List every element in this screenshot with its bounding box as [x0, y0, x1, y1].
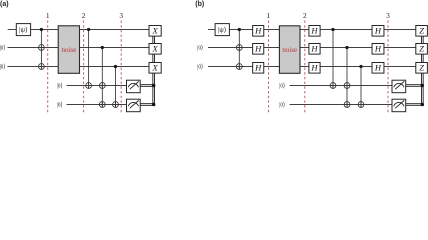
gate X q3 (a)	[149, 63, 161, 74]
svg-text:|0⟩: |0⟩	[57, 102, 63, 109]
svg-text:2: 2	[303, 11, 307, 20]
svg-text:H: H	[374, 25, 382, 35]
wire ancilla a1 (a)	[67, 85, 127, 87]
measurement meter a1 (a)	[127, 80, 141, 93]
classical double wire from meter a1 (a)	[140, 84, 154, 86]
control q2 syndrome (b)	[345, 46, 348, 49]
dashed barrier 3 (a)	[120, 21, 122, 114]
wire ancilla a1 (b)	[290, 85, 392, 87]
gate H q3 col2 (b)	[309, 63, 320, 74]
gate H q2 col2 (b)	[309, 44, 320, 55]
svg-text:H: H	[310, 43, 318, 53]
wire CNOT vertical q1->a1 (a)	[88, 30, 90, 89]
svg-text:H: H	[310, 62, 318, 72]
control q1 syndrome (b)	[331, 28, 334, 31]
svg-text:Z: Z	[419, 43, 424, 53]
svg-text:H: H	[310, 25, 318, 35]
CNOT target q3 (a)	[39, 64, 45, 70]
gate X q2 (a)	[149, 44, 161, 55]
CNOT target a2 from q2 (b)	[344, 102, 350, 108]
CNOT target q2 (b)	[236, 45, 242, 51]
classical corner dot a2 (b)	[421, 103, 424, 106]
measurement meter a1 (b)	[392, 80, 406, 93]
dashed barrier 2 (a)	[83, 21, 85, 114]
wire ancilla a2 (b)	[290, 104, 392, 106]
svg-text:H: H	[254, 43, 262, 53]
control q1 syndrome (a)	[87, 28, 90, 31]
svg-text:(a): (a)	[0, 1, 9, 8]
classical junction dot a1 (a)	[152, 84, 155, 87]
CNOT target a1 from q1 (a)	[86, 83, 92, 89]
CNOT target a2 from q2 (a)	[99, 102, 105, 108]
svg-text:Z: Z	[419, 25, 424, 35]
control q1 encode (b)	[238, 28, 241, 31]
wire q3 (b)	[208, 66, 416, 68]
classical double wire from meter a1 (b)	[406, 84, 423, 86]
measurement meter a2 (b)	[392, 99, 406, 112]
CNOT target a1 from q2 (b)	[344, 83, 350, 89]
control q2 syndrome (a)	[101, 46, 104, 49]
svg-text:H: H	[374, 62, 382, 72]
svg-text:|0⟩: |0⟩	[197, 45, 203, 52]
control q1 encode (a)	[40, 28, 43, 31]
svg-text:1: 1	[267, 11, 271, 20]
CNOT target a1 from q2 (a)	[99, 83, 105, 89]
gate H q3 col1 (b)	[253, 63, 264, 74]
svg-text:|0⟩: |0⟩	[57, 83, 63, 90]
classical corner dot a2 (a)	[152, 103, 155, 106]
gate H q1 col2 (b)	[309, 26, 320, 37]
CNOT target q2 (a)	[39, 45, 45, 51]
svg-text:|ψ⟩: |ψ⟩	[218, 26, 227, 34]
classical double wire vertical (b)	[420, 36, 422, 106]
svg-text:|0⟩: |0⟩	[0, 64, 5, 71]
svg-text:H: H	[374, 43, 382, 53]
wire ancilla a2 (a)	[67, 104, 127, 106]
gate H q3 col3 (b)	[372, 63, 384, 74]
wire CNOT vertical encode (b)	[238, 30, 240, 70]
svg-text:(b): (b)	[195, 1, 204, 8]
wire CNOT vertical q1->a1 (b)	[332, 30, 334, 89]
wire CNOT vertical encode (a)	[40, 30, 42, 70]
classical double wire from meter a2 (b)	[406, 103, 423, 105]
control q3 syndrome (a)	[114, 65, 117, 68]
CNOT target q3 (b)	[236, 64, 242, 70]
svg-text:noise: noise	[282, 46, 297, 54]
svg-text:3: 3	[386, 11, 390, 20]
gate Z q2 (b)	[416, 44, 428, 55]
wire q1 (a)	[8, 29, 17, 31]
svg-text:3: 3	[119, 11, 123, 20]
control q3 syndrome (b)	[359, 65, 362, 68]
state-prep box |psi> (b)	[215, 24, 229, 36]
dashed barrier 1 (b)	[268, 21, 270, 114]
CNOT target a2 from q3 (a)	[113, 102, 119, 108]
wire CNOT vertical q2->a1,a2 (a)	[101, 48, 103, 108]
noise box (a)	[58, 26, 79, 74]
gate H q2 col1 (b)	[253, 44, 264, 55]
noise box (b)	[279, 26, 300, 74]
svg-text:H: H	[254, 25, 262, 35]
gate Z q3 (b)	[416, 63, 428, 74]
gate H q1 col3 (b)	[372, 26, 384, 37]
wire q2 (b)	[208, 47, 416, 49]
measurement meter a2 (a)	[127, 99, 141, 112]
wire q2 (a)	[8, 47, 150, 49]
classical junction dot a1 (b)	[421, 84, 424, 87]
svg-text:|0⟩: |0⟩	[0, 45, 5, 52]
gate H q2 col3 (b)	[372, 44, 384, 55]
dashed barrier 1 (a)	[47, 21, 49, 114]
wire CNOT vertical q3->a2 (b)	[360, 67, 362, 108]
wire CNOT vertical q3->a2 (a)	[115, 67, 117, 108]
dashed barrier 2 (b)	[304, 21, 306, 114]
svg-text:noise: noise	[61, 46, 76, 54]
classical double wire from meter a2 (a)	[140, 103, 154, 105]
svg-text:|ψ⟩: |ψ⟩	[19, 26, 28, 34]
svg-text:|0⟩: |0⟩	[279, 102, 285, 109]
wire CNOT vertical q2->a1,a2 (b)	[346, 48, 348, 108]
svg-text:Z: Z	[419, 62, 424, 72]
state-prep box |psi> (a)	[16, 24, 30, 36]
classical double wire vertical (a)	[152, 36, 154, 106]
svg-text:X: X	[151, 62, 158, 72]
svg-text:1: 1	[46, 11, 50, 20]
CNOT target a2 from q3 (b)	[358, 102, 364, 108]
dashed barrier 3 (b)	[387, 21, 389, 114]
svg-text:X: X	[151, 43, 158, 53]
svg-text:|0⟩: |0⟩	[197, 64, 203, 71]
svg-text:X: X	[151, 25, 158, 35]
svg-text:H: H	[254, 62, 262, 72]
wire q1 (b)	[208, 29, 215, 31]
CNOT target a1 from q1 (b)	[330, 83, 336, 89]
wire q3 (a)	[8, 66, 150, 68]
gate Z q1 (b)	[416, 26, 428, 37]
gate X q1 (a)	[149, 26, 161, 37]
svg-text:2: 2	[82, 11, 86, 20]
svg-text:|0⟩: |0⟩	[279, 83, 285, 90]
gate H q1 col1 (b)	[253, 26, 264, 37]
